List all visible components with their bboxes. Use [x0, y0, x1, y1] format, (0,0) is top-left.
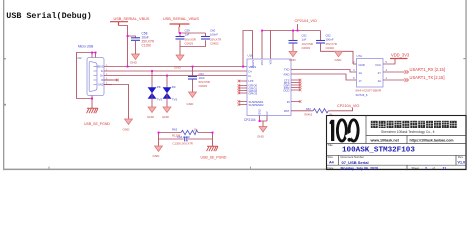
junction right node	[212, 132, 214, 134]
svg-text:ID: ID	[101, 79, 104, 82]
wire TXD to U7A	[291, 70, 357, 73]
svg-text:1Y: 1Y	[359, 79, 363, 83]
ground under C61	[289, 51, 297, 62]
wire D+ row	[112, 75, 247, 77]
junction CP2104_VIO stub	[292, 30, 294, 32]
svg-text:Micro USB: Micro USB	[78, 45, 93, 49]
svg-text:REGIN: REGIN	[252, 60, 255, 68]
svg-text:1%: 1%	[194, 128, 199, 132]
svg-text:11: 11	[443, 166, 447, 170]
wire REGIN rail	[243, 31, 253, 67]
svg-text:C0603: C0603	[302, 46, 311, 50]
wire R62 to CP2104_VIO	[328, 108, 352, 111]
wire D8 to gnd	[151, 98, 153, 107]
ground under D8	[147, 107, 156, 119]
svg-text:CP2104: CP2104	[244, 118, 256, 122]
frame tick right	[463, 58, 465, 59]
power bar USB_SERIAL_VBUS left	[110, 22, 128, 26]
svg-text:EP: EP	[266, 111, 269, 115]
U16 top pin names	[252, 60, 273, 68]
svg-text:D8: D8	[157, 85, 161, 89]
power ground USB_SE_PGND bottom	[201, 146, 227, 159]
svg-text:VBUS: VBUS	[97, 66, 104, 69]
title block url vertical divider	[406, 136, 408, 144]
net label CP2104_VIO top	[295, 19, 317, 31]
junction VIO	[261, 30, 263, 32]
svg-text:CP2104_VIO: CP2104_VIO	[337, 104, 359, 108]
svg-text:GND: GND	[98, 84, 104, 87]
wire D9 to gnd	[166, 98, 168, 107]
svg-text:C0402: C0402	[326, 46, 335, 50]
wire 2Y out	[383, 71, 405, 73]
title block sheet divider	[406, 165, 408, 170]
title block title row top	[327, 143, 467, 145]
J12 pin stubs right	[104, 67, 112, 85]
svg-text:VDD_3V3: VDD_3V3	[391, 52, 410, 57]
svg-text:www.100ask.net: www.100ask.net	[370, 138, 400, 142]
svg-text:J12: J12	[77, 56, 82, 60]
svg-text:C0603: C0603	[185, 42, 194, 46]
svg-text:D-: D-	[101, 70, 104, 73]
svg-text:100ASK_STM32F103: 100ASK_STM32F103	[342, 146, 415, 154]
resistor R63	[172, 128, 198, 138]
svg-text:GND: GND	[335, 58, 343, 62]
title block size row top	[327, 154, 467, 156]
svg-text:D9: D9	[172, 85, 176, 89]
capacitor C64	[173, 135, 193, 146]
logo 100ask	[329, 120, 358, 144]
svg-text:100nF: 100nF	[210, 33, 218, 37]
svg-text:GND: GND	[289, 58, 297, 62]
offpage USART1_RX	[405, 67, 445, 74]
IC U16 CP2104	[244, 54, 291, 123]
frame left border	[3, 0, 4, 170]
wire VDD/VIO rail	[262, 31, 321, 60]
svg-text:R0402: R0402	[305, 113, 313, 117]
svg-text:GPIO3: GPIO3	[249, 92, 258, 96]
wire 2A out	[383, 79, 405, 81]
svg-text:RI: RI	[287, 100, 290, 104]
frame tick left 2	[3, 104, 6, 106]
capacitor C59	[176, 29, 196, 46]
svg-text:R62: R62	[306, 107, 311, 111]
TVS diode D9	[163, 85, 178, 102]
svg-text:CP2104_VIO: CP2104_VIO	[295, 19, 317, 23]
svg-text:U16: U16	[248, 54, 254, 58]
svg-text:https://100ask.taobao.com: https://100ask.taobao.com	[410, 138, 454, 142]
U16 left pin names	[249, 65, 265, 107]
svg-text:07_USB Serial: 07_USB Serial	[342, 160, 369, 165]
svg-text:Shenzhen 100ask Technology Co.: Shenzhen 100ask Technology Co., lt	[381, 130, 435, 134]
J12 pin names	[97, 66, 104, 87]
wire RXD to U7A	[291, 74, 357, 80]
svg-text:USB Serial(Debug): USB Serial(Debug)	[6, 11, 91, 21]
svg-text:TVS: TVS	[172, 98, 178, 102]
ground bottom left	[153, 146, 163, 158]
svg-text:C0603: C0603	[199, 84, 208, 88]
ground under U16	[257, 127, 267, 139]
junction REGIN rail	[242, 66, 244, 68]
svg-text:Rev: Rev	[458, 155, 464, 159]
svg-text:R63: R63	[172, 128, 178, 132]
svg-text:USART1_TX [2,15]: USART1_TX [2,15]	[410, 75, 445, 80]
title block outer box	[327, 116, 467, 170]
wire D9 drop	[166, 76, 168, 88]
svg-text:USB_SERIAL_VBUS: USB_SERIAL_VBUS	[163, 17, 199, 21]
svg-text:6N4-VC5GT-DBVR: 6N4-VC5GT-DBVR	[356, 89, 383, 93]
title block rev divider	[455, 155, 457, 165]
junction bottom gnd	[259, 120, 261, 122]
J12 shield pins top	[92, 53, 96, 58]
junction left node	[158, 132, 160, 134]
svg-text:Size: Size	[328, 155, 334, 159]
junction C59 top	[179, 32, 181, 34]
wire D- row	[112, 70, 247, 72]
svg-text:TXD: TXD	[284, 67, 290, 71]
wire shield loop	[77, 53, 96, 109]
svg-text:USART1_RX [2,15]: USART1_RX [2,15]	[410, 67, 445, 72]
svg-text:Date: Date	[328, 166, 334, 170]
svg-text:USB_SE_PGND: USB_SE_PGND	[201, 155, 227, 159]
svg-text:GND: GND	[147, 115, 155, 119]
svg-text:C1206 2KV,X7R: C1206 2KV,X7R	[173, 142, 193, 146]
svg-text:Sheet: Sheet	[412, 166, 420, 170]
frame tick bottom 2	[250, 167, 251, 169]
svg-text:GND: GND	[257, 135, 265, 139]
svg-text:GND: GND	[153, 154, 161, 158]
bottom shield RC network wires	[159, 133, 213, 147]
junction D8	[151, 70, 153, 72]
svg-text:USB_SE_PGND: USB_SE_PGND	[84, 122, 110, 126]
svg-text:D-: D-	[249, 74, 252, 78]
power bar VDD_3V3	[390, 52, 410, 58]
svg-text:C1206: C1206	[142, 43, 152, 47]
U16 bottom GND/EP pins	[260, 116, 268, 127]
U16 bottom pin names	[259, 109, 270, 115]
sheet background	[0, 0, 474, 176]
title block company/url divider	[366, 135, 466, 137]
svg-text:1uF: 1uF	[185, 33, 190, 37]
junction D9	[166, 75, 168, 77]
capacitor C62	[316, 34, 353, 65]
ground under C59/C60	[174, 55, 184, 70]
svg-text:VCC: VCC	[375, 63, 381, 67]
junction shield bottom	[91, 98, 93, 100]
wire to C59 C60	[179, 27, 206, 55]
company name CJK blocks	[371, 121, 457, 128]
no-connect ID	[116, 79, 119, 82]
svg-text:Monday, July 06, 2020: Monday, July 06, 2020	[341, 166, 379, 170]
frame tick left 1	[3, 58, 6, 59]
title block date row top	[327, 164, 467, 166]
svg-text:Document Number: Document Number	[341, 155, 365, 159]
svg-text:D+: D+	[249, 69, 253, 73]
svg-text:GND: GND	[259, 109, 262, 115]
svg-text:GND: GND	[130, 61, 138, 65]
svg-text:2Y: 2Y	[378, 71, 382, 75]
svg-text:DCD: DCD	[283, 89, 289, 93]
svg-text:V1.0: V1.0	[458, 161, 466, 165]
junction shield top	[91, 52, 93, 54]
junction VBUS drop	[127, 66, 129, 68]
ground under C63	[187, 92, 197, 106]
svg-text:2A: 2A	[378, 79, 382, 83]
U16 RI no-connect stub	[291, 100, 301, 103]
wire VCC to VDD_3V3	[383, 59, 395, 64]
buffer U7A	[356, 54, 384, 97]
U16 GPIO no-connect stubs	[238, 80, 247, 95]
ground under D9	[162, 107, 171, 119]
capacitor C61	[289, 34, 313, 52]
svg-text:of: of	[433, 166, 436, 170]
svg-text:GND: GND	[123, 128, 131, 132]
svg-text:SUSPEND2: SUSPEND2	[249, 103, 265, 107]
power bar USB_SERIAL_VBUS second	[170, 24, 190, 27]
wire GND row to ground	[104, 85, 129, 120]
wire D8 drop	[151, 71, 153, 88]
capacitor C60	[201, 29, 221, 46]
U7A pin numbers	[353, 61, 387, 80]
resistor R62	[305, 107, 333, 116]
U16 right pin names	[283, 67, 289, 113]
svg-text:GND: GND	[187, 102, 195, 106]
svg-text:TVS: TVS	[157, 98, 163, 102]
svg-text:Title: Title	[328, 143, 334, 147]
title block logo box divider	[365, 116, 367, 144]
capacitor C63	[188, 67, 210, 93]
svg-text:RST: RST	[284, 109, 290, 113]
capacitor C58	[131, 31, 155, 54]
svg-text:VIO: VIO	[270, 60, 273, 64]
svg-text:C64 2.2nF: C64 2.2nF	[177, 135, 190, 139]
svg-text:2: 2	[425, 166, 427, 170]
svg-text:USB_SERIAL_VBUS: USB_SERIAL_VBUS	[114, 17, 150, 21]
ground for U7A	[335, 51, 357, 64]
svg-text:1A: 1A	[359, 71, 363, 75]
wire RST to R62	[291, 110, 313, 112]
J12 pin numbers	[106, 65, 108, 85]
svg-text:GND: GND	[162, 115, 170, 119]
svg-text:D+: D+	[100, 75, 104, 78]
ground under J12 GND pin	[123, 119, 133, 132]
wire VBUS row	[112, 66, 247, 68]
frame right border	[465, 0, 466, 170]
frame bottom border	[3, 169, 467, 171]
svg-text:C0402: C0402	[210, 42, 219, 46]
wire vbus drop to C58 and bus	[119, 26, 136, 67]
svg-text:LPF: LPF	[249, 79, 254, 83]
U16 SUSPEND no-connect stubs	[238, 100, 247, 106]
TVS diode D8	[148, 85, 163, 102]
junction C63	[192, 66, 194, 68]
U16 right no-connect stubs CTS..DCD	[291, 79, 301, 92]
svg-text:GND: GND	[359, 63, 365, 67]
ground under C58	[130, 54, 140, 65]
svg-text:SOT23_6: SOT23_6	[356, 93, 368, 97]
svg-text:U7A: U7A	[357, 54, 363, 58]
frame tick bottom	[49, 167, 50, 169]
wire ID stub	[104, 79, 117, 81]
offpage USART1_TX	[405, 75, 445, 82]
title block size divider	[338, 155, 340, 165]
svg-text:VDD: VDD	[261, 60, 264, 65]
connector J12	[77, 56, 104, 96]
svg-text:RXD: RXD	[284, 72, 290, 76]
power ground USB_SE_PGND under connector	[84, 108, 110, 126]
